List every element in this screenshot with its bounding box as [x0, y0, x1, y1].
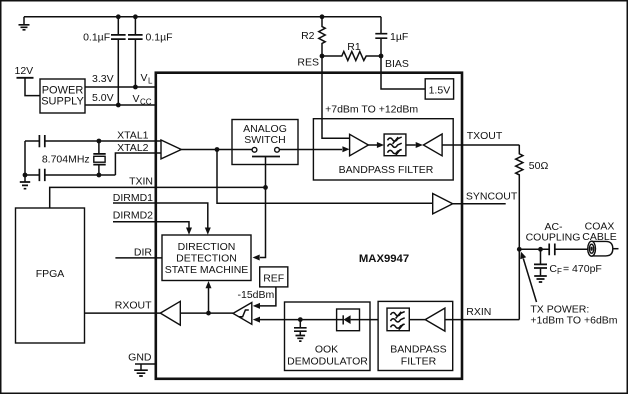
svg-text:STATE MACHINE: STATE MACHINE — [165, 264, 249, 276]
svg-text:1.5V: 1.5V — [429, 84, 451, 96]
svg-text:3.3V: 3.3V — [92, 73, 114, 85]
svg-text:RXOUT: RXOUT — [115, 300, 152, 312]
svg-text:DEMODULATOR: DEMODULATOR — [287, 355, 368, 367]
svg-text:DIRMD1: DIRMD1 — [113, 192, 153, 204]
svg-text:DIR: DIR — [134, 246, 153, 258]
svg-text:L: L — [148, 77, 153, 86]
svg-text:-15dBm: -15dBm — [238, 289, 275, 301]
svg-text:SYNCOUT: SYNCOUT — [466, 191, 518, 203]
svg-text:0.1µF: 0.1µF — [83, 32, 111, 44]
svg-text:R1: R1 — [347, 41, 361, 53]
svg-text:XTAL1: XTAL1 — [117, 129, 148, 141]
svg-text:SWITCH: SWITCH — [244, 134, 285, 146]
svg-text:DIRMD2: DIRMD2 — [113, 209, 153, 221]
svg-text:REF: REF — [263, 272, 284, 284]
svg-text:R2: R2 — [301, 30, 315, 42]
svg-text:1µF: 1µF — [390, 31, 408, 43]
svg-text:DIRECTION: DIRECTION — [178, 241, 236, 253]
svg-text:BANDPASS FILTER: BANDPASS FILTER — [339, 164, 434, 176]
svg-text:TXOUT: TXOUT — [467, 130, 503, 142]
svg-text:CC: CC — [140, 98, 152, 107]
svg-text:RXIN: RXIN — [466, 306, 491, 318]
svg-text:DETECTION: DETECTION — [176, 253, 237, 265]
svg-text:= 470pF: = 470pF — [563, 263, 602, 275]
svg-text:BANDPASS: BANDPASS — [390, 343, 446, 355]
svg-text:V: V — [133, 93, 140, 105]
svg-text:F: F — [557, 267, 562, 276]
svg-text:ANALOG: ANALOG — [243, 123, 287, 135]
svg-text:BIAS: BIAS — [385, 58, 409, 70]
svg-text:8.704MHz: 8.704MHz — [42, 154, 90, 166]
svg-text:SUPPLY: SUPPLY — [41, 96, 84, 108]
svg-text:+7dBm TO +12dBm: +7dBm TO +12dBm — [325, 103, 418, 115]
svg-text:MAX9947: MAX9947 — [359, 253, 409, 265]
svg-text:FILTER: FILTER — [401, 355, 437, 367]
svg-text:OOK: OOK — [315, 343, 338, 355]
svg-text:RES: RES — [297, 57, 319, 69]
svg-text:12V: 12V — [15, 65, 34, 77]
svg-text:0.1µF: 0.1µF — [146, 32, 173, 44]
svg-text:TX POWER:: TX POWER: — [530, 303, 589, 315]
svg-text:XTAL2: XTAL2 — [117, 142, 148, 154]
svg-text:GND: GND — [128, 351, 152, 363]
svg-text:FPGA: FPGA — [36, 268, 65, 280]
svg-text:5.0V: 5.0V — [92, 92, 114, 104]
svg-text:TXIN: TXIN — [129, 176, 153, 188]
svg-text:+1dBm TO +6dBm: +1dBm TO +6dBm — [530, 315, 617, 327]
svg-text:COUPLING: COUPLING — [526, 232, 581, 244]
svg-text:V: V — [141, 72, 148, 84]
svg-text:50Ω: 50Ω — [529, 160, 549, 172]
